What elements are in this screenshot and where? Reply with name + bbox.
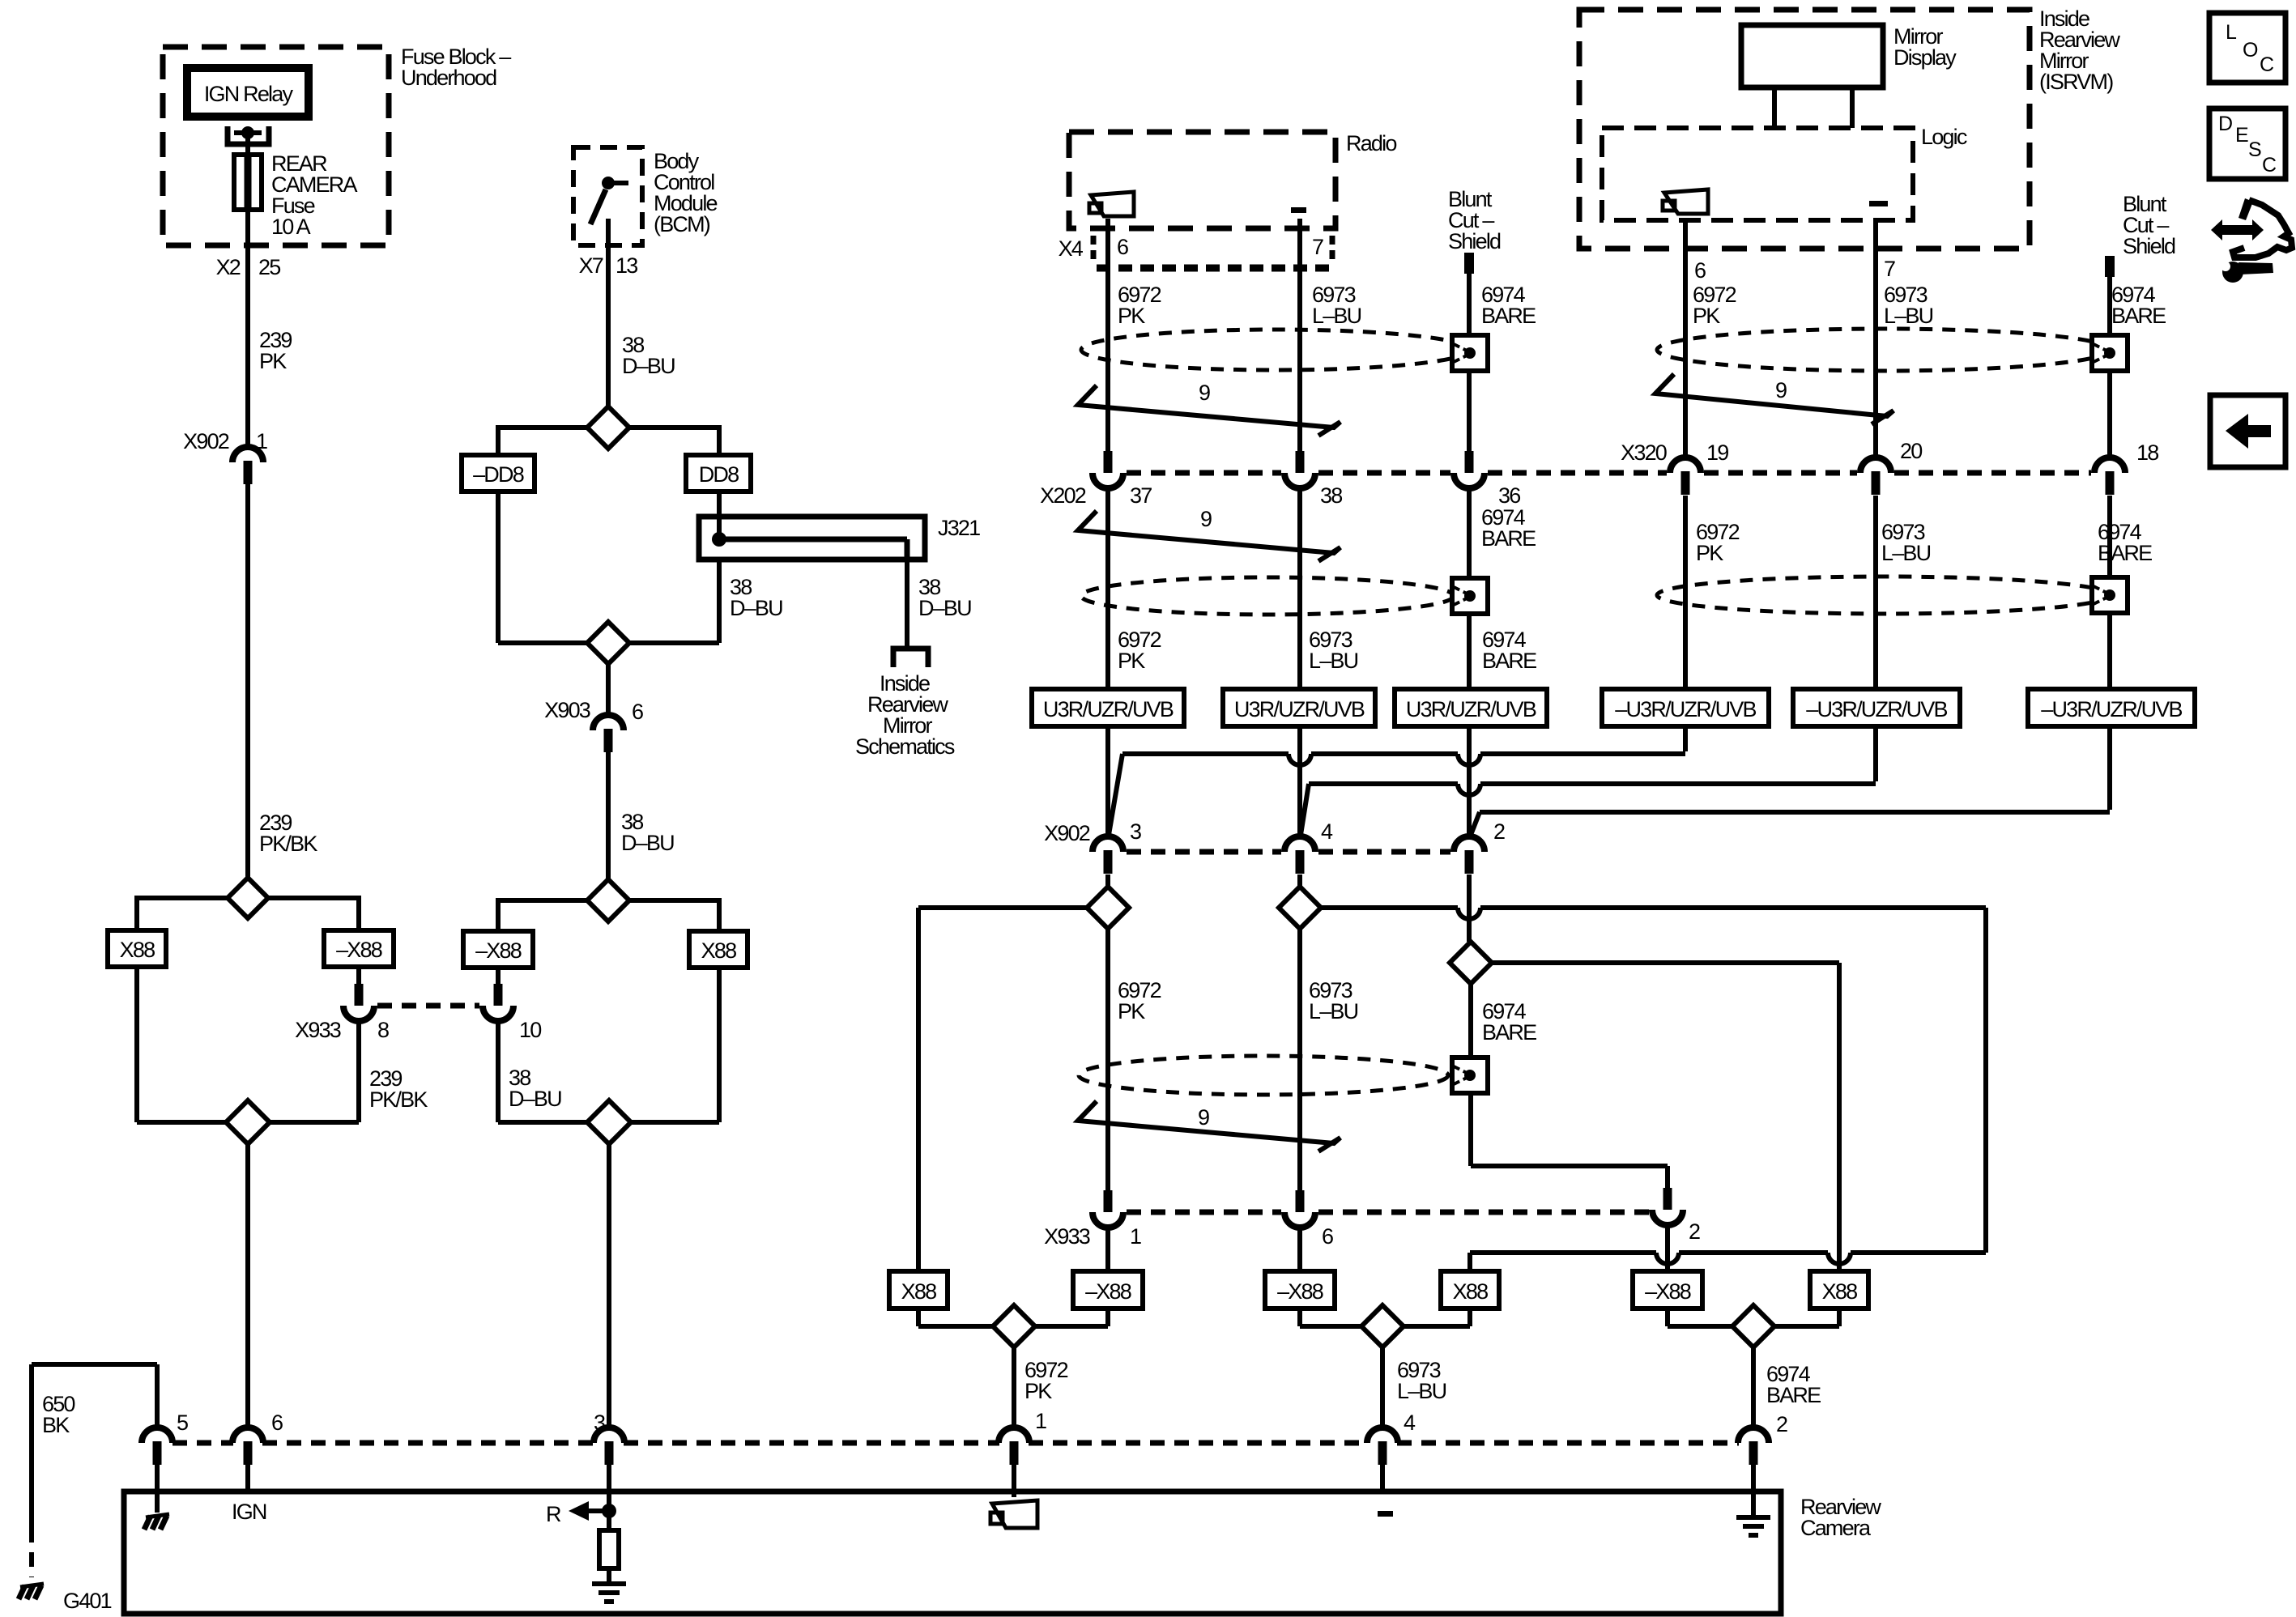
dashed box: Fuse Block - Underhood (163, 47, 389, 245)
wire: radio camera out 6972 PK (1105, 219, 1110, 451)
svg-text:36: 36 (1498, 483, 1520, 508)
connector X902 pin 2 (1454, 836, 1485, 852)
wire: L-BU slant into X902 pin 4 (1301, 784, 1309, 835)
svg-text:4: 4 (1321, 819, 1333, 844)
J321 internal bus bar (719, 537, 907, 543)
connector X933 pin 2 (1663, 1188, 1672, 1210)
dashed connector line X902 3-4-2 (1127, 849, 1281, 855)
svg-text:2: 2 (1493, 819, 1505, 844)
svg-text:L–BU: L–BU (1309, 999, 1358, 1023)
svg-text:PK/BK: PK/BK (259, 832, 317, 856)
splice diamond (PK) (1087, 887, 1129, 929)
connector X320 pin 18 (2094, 457, 2125, 473)
connector pin 5 (camera) (142, 1428, 173, 1443)
svg-text:38: 38 (1320, 483, 1342, 508)
merge diamond (fuse branch) (226, 1100, 270, 1144)
wire: branch left to X88 (137, 896, 228, 900)
wire: L-BU merge left leg (1297, 1308, 1302, 1326)
wire: radio PK to X902 pin 3 (1105, 726, 1110, 836)
svg-text:IGN: IGN (232, 1500, 266, 1524)
svg-text:R: R (546, 1502, 561, 1526)
svg-text:10 A: 10 A (271, 215, 311, 239)
svg-text:(BCM): (BCM) (654, 212, 710, 236)
option box -X88 (right) (324, 930, 394, 967)
chassis ground (camera pin 5) (146, 1514, 169, 1517)
svg-text:L–BU: L–BU (1312, 304, 1361, 328)
svg-text:BARE: BARE (1481, 304, 1536, 328)
merge diamond (BCM branch) (587, 622, 629, 664)
twist symbol (radio upper) (1078, 385, 1340, 436)
svg-text:4: 4 (1404, 1411, 1416, 1435)
svg-text:C: C (2262, 154, 2277, 177)
connector X202 pin 36 (1465, 451, 1474, 473)
svg-text:O: O (2243, 39, 2258, 62)
svg-text:X88: X88 (120, 938, 155, 962)
svg-text:–DD8: –DD8 (473, 462, 524, 487)
wire: PK merge right leg (1105, 1308, 1110, 1326)
svg-text:D–BU: D–BU (622, 354, 675, 378)
wire: fuse to connector X2 pin 25 (245, 210, 250, 447)
wire: branch right to X88 (BCM) (628, 898, 719, 903)
svg-text:–U3R/UZR/UVB: –U3R/UZR/UVB (2041, 697, 2182, 721)
svg-text:10: 10 (519, 1018, 541, 1042)
svg-text:Schematics: Schematics (855, 734, 955, 759)
minus terminal (camera box) (1378, 1511, 1393, 1517)
svg-text:D: D (2218, 113, 2232, 135)
wire: branch right to -X88 (268, 896, 359, 900)
svg-text:S: S (2248, 138, 2261, 161)
connector X933 pin 10 (494, 984, 503, 1006)
box: Rearview Camera (124, 1491, 1781, 1614)
svg-text:DD8: DD8 (699, 462, 739, 487)
svg-text:–X88: –X88 (1085, 1279, 1131, 1304)
icon box: left arrow (2210, 395, 2285, 467)
svg-text:13: 13 (616, 253, 637, 278)
wire: PK to camera connector 1 (1012, 1347, 1016, 1428)
wire: merge to X903 (606, 664, 611, 715)
svg-text:7: 7 (1884, 257, 1895, 281)
option box U3R/UZR/UVB (PK) (1032, 689, 1184, 726)
option box X88 (left) (108, 930, 166, 967)
connector pin 2 (camera) (1738, 1428, 1769, 1443)
shield connection box (ISRVM lower) (2092, 577, 2128, 613)
twisted pair ellipse (X933) (1079, 1056, 1448, 1095)
wire: PK down to X933 pin 1 (1105, 929, 1110, 1190)
svg-text:D–BU: D–BU (509, 1087, 561, 1111)
svg-text:X4: X4 (1059, 236, 1084, 261)
wire: ISRVM L-BU drop (1873, 726, 1878, 781)
svg-text:J321: J321 (938, 516, 980, 540)
connector X903 pin 6 (593, 715, 624, 730)
dashed connector line (camera row) (173, 1440, 233, 1446)
option box -X88 (shield left) (1633, 1271, 1702, 1308)
svg-text:BARE: BARE (1766, 1383, 1821, 1407)
svg-text:6: 6 (1117, 235, 1128, 259)
svg-text:L: L (2226, 21, 2237, 44)
dashed box: Radio (1069, 132, 1335, 228)
shield connection box (X933) (1452, 1057, 1488, 1093)
camera icon (logic) (1664, 189, 1708, 214)
twisted pair ellipse (radio upper) (1081, 330, 1470, 370)
wire: PK slant into X902 pin 3 (1109, 754, 1122, 835)
svg-text:BARE: BARE (2098, 541, 2152, 565)
svg-text:8: 8 (377, 1018, 389, 1042)
splice diamond (BARE) (1450, 942, 1492, 984)
icon box: DESC (2209, 109, 2285, 179)
wire: L-BU merge right leg (1467, 1308, 1472, 1326)
shield connection box (radio lower) (1452, 578, 1488, 614)
wire: radio BARE to X902 pin 2 (1467, 726, 1472, 836)
svg-text:U3R/UZR/UVB: U3R/UZR/UVB (1406, 697, 1536, 721)
svg-text:X933: X933 (295, 1018, 341, 1042)
svg-text:9: 9 (1200, 507, 1212, 531)
svg-text:X903: X903 (544, 698, 590, 722)
svg-text:–X88: –X88 (475, 938, 522, 963)
svg-text:X902: X902 (1044, 821, 1090, 845)
option box X88 (BCM right) (689, 931, 748, 968)
connector X933 pin 6 (1296, 1190, 1305, 1212)
svg-text:6: 6 (1694, 258, 1706, 283)
wire: X933-1 into -X88 (1105, 1228, 1110, 1271)
wire: shield merge left leg (1665, 1308, 1670, 1326)
wire: 239 PK/BK down to splice (245, 484, 250, 877)
wire: L-BU branch down (1983, 908, 1988, 1253)
wire: L-BU to camera connector 4 (1380, 1347, 1385, 1428)
svg-text:–X88: –X88 (1645, 1279, 1691, 1304)
wire: branch right to DD8 (628, 425, 719, 430)
wire: 650 BK dashed segment (29, 1528, 34, 1577)
wire: BARE interconnect (1480, 810, 2110, 815)
wire: pin 4 into camera box (1380, 1465, 1385, 1494)
dashed connector line X933 8-10 (377, 1003, 479, 1009)
wire: shield merge right leg (1837, 1308, 1842, 1326)
svg-text:9: 9 (1199, 381, 1210, 405)
wire: -DD8 down and to merge (496, 491, 501, 643)
wire: pin 1 into camera box (1012, 1465, 1016, 1497)
option box -X88 (PK right) (1073, 1271, 1143, 1308)
option box X88 (PK left) (889, 1271, 948, 1308)
svg-text:IGN Relay: IGN Relay (204, 82, 294, 106)
relay contact dot and bar (234, 130, 262, 135)
connector X4 right dashed edge (1330, 236, 1335, 265)
svg-text:Logic: Logic (1921, 125, 1967, 149)
svg-text:L–BU: L–BU (1881, 541, 1931, 565)
wire: pin 3 into camera box (607, 1465, 611, 1530)
wire: 6973 L-BU to option box (1297, 488, 1302, 689)
connector pin 1 (camera) (999, 1428, 1029, 1443)
wire: X933-6 into -X88 (1297, 1228, 1302, 1271)
dashed connector line X202/X320 (1127, 470, 1281, 476)
wire: X88 right leg down (717, 968, 722, 1122)
svg-text:BARE: BARE (1482, 649, 1536, 673)
svg-text:BARE: BARE (1481, 526, 1536, 551)
wire: L-BU down to X933 pin 6 (1297, 929, 1302, 1190)
wire: resistor to ground (607, 1568, 611, 1584)
svg-text:U3R/UZR/UVB: U3R/UZR/UVB (1043, 697, 1174, 721)
svg-text:20: 20 (1900, 439, 1922, 463)
wire: ISRVM PK drop (1683, 726, 1688, 751)
svg-text:Shield: Shield (1448, 229, 1501, 253)
splice diamond (BCM lower) (587, 879, 629, 921)
svg-text:18: 18 (2136, 440, 2158, 465)
connector X902 pin 3 (1093, 836, 1123, 852)
svg-text:Display: Display (1893, 45, 1957, 70)
wire: pin 2 into camera box (1751, 1465, 1756, 1517)
wire: X902-2 to splice (1467, 874, 1472, 942)
wire: ISRVM 6973 L-BU (1873, 220, 1878, 457)
shield connection box (ISRVM upper) (2092, 335, 2128, 371)
svg-text:2: 2 (1689, 1219, 1700, 1244)
wire: DD8 down into J321 (717, 491, 722, 536)
svg-text:–U3R/UZR/UVB: –U3R/UZR/UVB (1615, 697, 1756, 721)
wire: ISRVM BARE drop (2107, 726, 2112, 810)
option box -U3R/UZR/UVB (BARE) (2028, 689, 2195, 726)
dashed box: Logic (1602, 128, 1913, 220)
wire: branch left to -DD8 (498, 425, 588, 430)
wire: shield to camera connector 2 (1751, 1347, 1756, 1428)
dashed connector line X933 1-6-2 (1127, 1210, 1281, 1215)
wire: 650 BK ground lead (155, 1364, 160, 1428)
svg-text:–X88: –X88 (336, 938, 382, 962)
svg-text:L–BU: L–BU (1309, 649, 1358, 673)
svg-text:–X88: –X88 (1277, 1279, 1323, 1304)
connector X933 pin 8 (355, 984, 364, 1006)
svg-text:6: 6 (271, 1411, 283, 1435)
twisted pair ellipse (ISRVM lower) (1657, 577, 2111, 614)
splice pack J321 outline (699, 517, 925, 560)
option box X88 (shield right) (1810, 1271, 1868, 1308)
wire: X903 down to splice (606, 752, 611, 879)
wire: pin 5 into camera box (155, 1465, 160, 1513)
wire: PK merge left leg (916, 1308, 921, 1326)
connector pin 6 (camera) (232, 1428, 263, 1443)
svg-text:PK: PK (259, 349, 287, 373)
option box U3R/UZR/UVB (BARE) (1395, 689, 1547, 726)
svg-text:37: 37 (1130, 483, 1152, 508)
wire: J321 right leg to off-page bracket (905, 560, 909, 647)
svg-text:5: 5 (177, 1411, 188, 1435)
wire: BCM to splice (606, 219, 611, 407)
wire: radio L-BU to X902 pin 4 (1297, 726, 1302, 836)
wire: branch left to -X88 (BCM) (498, 898, 588, 903)
wire: radio minus 6973 L-BU (1297, 219, 1302, 451)
connector X4 dashed bar (1097, 265, 1332, 272)
icon: adjust hand with wrench (2233, 200, 2292, 257)
wire: X320-19 to option box (1683, 496, 1688, 689)
camera icon (radio output) (1091, 192, 1134, 216)
connector X320 pin 19 (1670, 457, 1701, 473)
wire: 6974 BARE (radio) (1467, 274, 1472, 451)
J321 junction dot (712, 532, 726, 547)
svg-text:9: 9 (1775, 378, 1787, 402)
connector pin 3 (camera) (594, 1428, 624, 1443)
ground G401 (20, 1584, 44, 1587)
relay contact bracket (228, 126, 269, 144)
connector X902 pin 4 (1284, 836, 1315, 852)
svg-text:–U3R/UZR/UVB: –U3R/UZR/UVB (1806, 697, 1947, 721)
svg-text:6: 6 (632, 700, 643, 724)
wire: X933-2 into -X88 (1665, 1225, 1670, 1271)
icon box: LOC (2209, 13, 2285, 83)
merge diamond (PK) (993, 1305, 1035, 1347)
wire: ISRVM 6974 BARE (2107, 277, 2112, 457)
svg-text:9: 9 (1198, 1105, 1209, 1130)
svg-text:PK: PK (1118, 649, 1145, 673)
twisted pair ellipse (ISRVM upper) (1657, 329, 2111, 371)
wire: down to camera connector 3 (607, 1144, 611, 1428)
wire: X933-8 down to merge (356, 1021, 361, 1122)
svg-text:1: 1 (1035, 1409, 1046, 1433)
wire: X902-4 to splice (1297, 874, 1302, 887)
splice diamond (L-BU) (1279, 887, 1321, 929)
connector X902 pin 1 (232, 447, 263, 462)
relay box: IGN Relay (187, 68, 309, 117)
minus terminal (radio) (1291, 207, 1306, 213)
svg-text:X88: X88 (1822, 1279, 1857, 1304)
wire: BARE down through shield box (1468, 984, 1473, 1166)
svg-text:(ISRVM): (ISRVM) (2039, 70, 2113, 94)
svg-text:L–BU: L–BU (1884, 304, 1933, 328)
svg-text:3: 3 (1130, 819, 1141, 844)
svg-text:C: C (2260, 53, 2274, 76)
svg-text:D–BU: D–BU (730, 596, 782, 620)
wire: 6974 BARE to option box (1467, 488, 1472, 689)
svg-text:PK/BK: PK/BK (369, 1087, 428, 1112)
wire: -X88 to X933 pin 8 (356, 967, 361, 985)
twist symbol (ISRVM) (1655, 374, 1893, 424)
junction dot (R node) (602, 1504, 616, 1518)
svg-text:D–BU: D–BU (918, 596, 971, 620)
fuse F: REAR CAMERA Fuse 10A body (234, 155, 262, 210)
shield connection box (radio upper) (1452, 335, 1488, 371)
wire: X933-10 down to merge (496, 1021, 501, 1122)
wire: PK interconnect with crossover hops (1122, 751, 1289, 756)
connector X320 pin 20 (1860, 457, 1891, 473)
svg-text:1: 1 (256, 429, 267, 453)
svg-text:E: E (2235, 124, 2248, 147)
minus terminal (logic) (1869, 201, 1888, 206)
blunt cut stub (radio shield) (1464, 253, 1474, 274)
earth ground (camera R) (592, 1581, 626, 1586)
svg-text:3: 3 (594, 1411, 605, 1435)
option box -X88 (BCM left) (463, 931, 533, 968)
svg-text:PK: PK (1693, 304, 1720, 328)
dashed box: Body Control Module (BCM) (573, 147, 642, 245)
svg-text:BARE: BARE (2111, 304, 2166, 328)
svg-text:7: 7 (1312, 235, 1323, 259)
twist symbol (X933) (1078, 1101, 1340, 1151)
option box U3R/UZR/UVB (L-BU) (1223, 689, 1375, 726)
svg-text:X88: X88 (701, 938, 736, 963)
camera icon (camera box) (992, 1500, 1037, 1528)
wire: X320-20 to option box (1873, 496, 1878, 689)
option box DD8 (686, 455, 751, 491)
wire: ISRVM 6972 PK (1683, 220, 1688, 457)
option box -X88 (L-BU left) (1265, 1271, 1335, 1308)
wire: relay to fuse (245, 133, 250, 157)
wire: L-BU branch return with hops (1470, 1250, 1656, 1255)
option box -DD8 (462, 455, 535, 491)
connector X202 pin 38 (1296, 451, 1305, 473)
resistor (camera) (599, 1530, 619, 1568)
svg-text:PK: PK (1118, 999, 1145, 1023)
svg-text:X88: X88 (1453, 1279, 1488, 1304)
svg-text:Shield: Shield (2123, 234, 2175, 258)
option box -U3R/UZR/UVB (PK) (1602, 689, 1769, 726)
wire: X88 left leg down (134, 967, 139, 1122)
svg-text:BARE: BARE (1482, 1020, 1536, 1045)
connector X202 pin 37 (1104, 451, 1113, 473)
wire: -X88 to X933 pin 10 (496, 968, 501, 985)
svg-text:D–BU: D–BU (621, 831, 674, 855)
splice diamond (fuse branch) (228, 878, 268, 918)
wire: L-BU interconnect with crossover hop (1309, 781, 1458, 786)
wire: L-BU branch right with hop (1321, 905, 1458, 910)
twist symbol (radio mid) (1078, 511, 1340, 561)
merge diamond (shield) (1732, 1305, 1774, 1347)
mirror display stem (1772, 87, 1777, 128)
wire: down to camera connector 6 (245, 1144, 250, 1428)
option box -U3R/UZR/UVB (L-BU) (1793, 689, 1960, 726)
switch in BCM (602, 177, 615, 189)
wire: 6972 PK to option box (1105, 488, 1110, 689)
splice diamond (BCM branch) (587, 406, 629, 449)
svg-text:U3R/UZR/UVB: U3R/UZR/UVB (1234, 697, 1365, 721)
wire: L-BU branch into X88 box (1467, 1253, 1472, 1271)
option box X88 (L-BU right) (1441, 1271, 1499, 1308)
svg-text:X320: X320 (1621, 440, 1667, 465)
wire: BARE branch down to X88 (1837, 963, 1842, 1271)
svg-text:Radio: Radio (1346, 131, 1396, 155)
svg-text:1: 1 (1130, 1224, 1141, 1249)
svg-text:G401: G401 (63, 1589, 112, 1613)
wire: J321 left leg to merge diamond (717, 560, 722, 643)
svg-text:2: 2 (1776, 1412, 1787, 1436)
svg-text:X202: X202 (1040, 483, 1086, 508)
wire: BARE over to X933 pin 2 (1471, 1164, 1668, 1168)
connector X933 pin 1 (1104, 1190, 1113, 1212)
wire: BARE slant into X902 pin 2 (1471, 812, 1480, 835)
off-page bracket (mirror schematics) (893, 649, 928, 667)
merge diamond (L-BU) (1361, 1305, 1404, 1347)
merge diamond (BCM lower) (587, 1100, 631, 1144)
svg-text:PK: PK (1696, 541, 1723, 565)
blunt cut stub (ISRVM shield) (2105, 256, 2115, 277)
twisted pair ellipse (radio lower) (1081, 577, 1454, 615)
wire: BARE branch right (1491, 960, 1839, 965)
svg-text:X933: X933 (1044, 1224, 1090, 1249)
svg-text:Camera: Camera (1800, 1516, 1872, 1540)
svg-text:X2: X2 (216, 255, 241, 279)
earth ground (camera pin 2) (1736, 1515, 1770, 1520)
wire: X902-3 to splice (1105, 874, 1110, 887)
connector pin 4 (camera) (1367, 1428, 1398, 1443)
svg-text:BK: BK (42, 1413, 70, 1437)
wire: PK branch to left X88 leg (918, 905, 1088, 910)
svg-text:X88: X88 (901, 1279, 936, 1304)
connector X4 left dashed edge (1091, 236, 1097, 265)
wire: X320-18 to option box (2107, 496, 2112, 689)
wire: pin 6 into camera box (245, 1465, 250, 1491)
svg-text:6: 6 (1322, 1224, 1333, 1249)
reverse signal arrow (569, 1501, 589, 1521)
svg-text:Underhood: Underhood (401, 66, 496, 90)
svg-text:25: 25 (258, 255, 280, 279)
svg-text:19: 19 (1706, 440, 1728, 465)
svg-text:PK: PK (1118, 304, 1145, 328)
svg-text:X7: X7 (579, 253, 603, 278)
svg-text:PK: PK (1024, 1379, 1052, 1403)
